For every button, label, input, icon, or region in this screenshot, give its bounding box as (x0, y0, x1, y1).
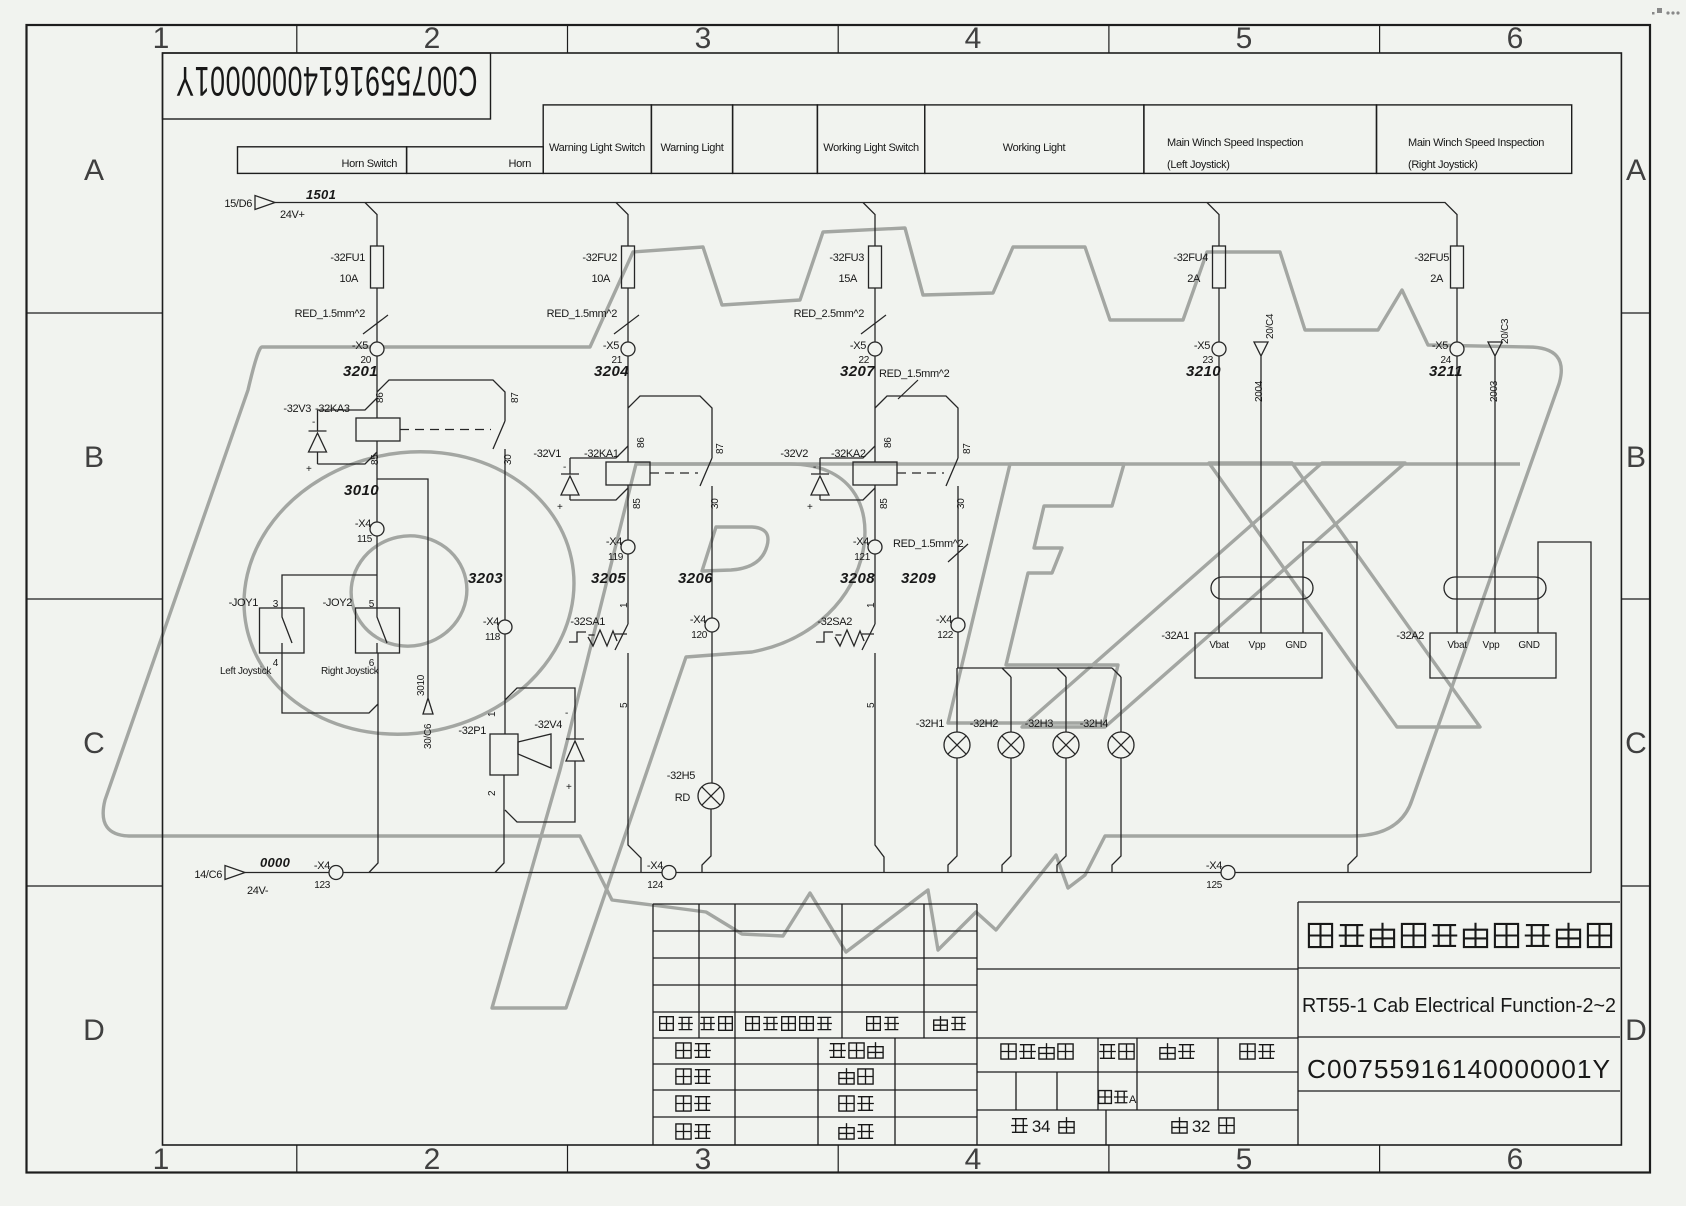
svg-text:RED_2.5mm^2: RED_2.5mm^2 (794, 308, 865, 320)
contact branch to -32KA1 87/30 (628, 396, 712, 618)
svg-text:123: 123 (314, 880, 331, 891)
svg-text:2004: 2004 (1254, 380, 1265, 402)
svg-text:2: 2 (424, 1143, 441, 1176)
svg-text:Vbat: Vbat (1447, 640, 1467, 651)
terminal -X4 pin 123 (329, 866, 343, 880)
svg-text:Vpp: Vpp (1249, 640, 1267, 651)
terminal -X4 pin 121 (868, 540, 882, 554)
svg-text:2A: 2A (1430, 273, 1444, 285)
svg-text:Warning Light Switch: Warning Light Switch (549, 142, 645, 154)
svg-text:-X4: -X4 (936, 614, 952, 626)
svg-text:-X5: -X5 (603, 340, 619, 352)
svg-text:3209: 3209 (901, 570, 936, 587)
title block (653, 902, 1620, 1145)
switch -32SA1 (569, 554, 628, 650)
fuse -32FU5 (1451, 246, 1464, 288)
svg-text:-X4: -X4 (647, 860, 663, 872)
corner marks (1652, 8, 1680, 15)
fuse -32FU4 (1213, 246, 1226, 288)
svg-text:118: 118 (485, 632, 501, 643)
svg-text:2003: 2003 (1489, 380, 1500, 402)
terminal -X4 pin 118 (498, 620, 512, 634)
svg-text:3204: 3204 (594, 363, 629, 380)
svg-text:3: 3 (273, 599, 279, 610)
terminal -X4 pin 119 (621, 540, 635, 554)
svg-text:-X4: -X4 (853, 536, 869, 548)
svg-text:-32FU1: -32FU1 (330, 252, 365, 264)
terminal -X5 pin 24 (1450, 342, 1464, 356)
svg-text:20/C4: 20/C4 (1265, 313, 1276, 339)
svg-text:119: 119 (608, 552, 624, 563)
wire drop from bus at x=1219 (1207, 203, 1219, 247)
svg-text:Horn: Horn (509, 158, 532, 170)
svg-text:10A: 10A (339, 273, 359, 285)
diode -32V3 branch (309, 398, 378, 464)
svg-text:GND: GND (1285, 640, 1306, 651)
svg-text:Left Joystick: Left Joystick (220, 666, 272, 677)
svg-text:Right Joystick: Right Joystick (321, 666, 380, 677)
svg-text:4: 4 (965, 22, 982, 55)
svg-text:-32V2: -32V2 (780, 448, 808, 460)
wire X5.24 to sensor Vbat (1456, 356, 1458, 633)
switch -32SA2 (816, 554, 875, 650)
svg-text:RED_1.5mm^2: RED_1.5mm^2 (547, 308, 618, 320)
svg-text:86: 86 (636, 437, 647, 448)
svg-text:3208: 3208 (840, 570, 875, 587)
svg-text:120: 120 (691, 630, 708, 641)
svg-text:-: - (813, 462, 816, 473)
svg-text:1: 1 (866, 602, 877, 608)
svg-text:4: 4 (965, 1143, 982, 1176)
wire bus 0000 (24V-) (245, 872, 1591, 874)
svg-text:+: + (566, 782, 572, 793)
svg-text:Working Light Switch: Working Light Switch (823, 142, 919, 154)
svg-text:-JOY2: -JOY2 (323, 597, 353, 609)
svg-text:C: C (83, 727, 105, 760)
svg-text:34: 34 (1032, 1117, 1050, 1136)
svg-text:-32SA1: -32SA1 (570, 616, 605, 628)
svg-text:Horn Switch: Horn Switch (342, 158, 398, 170)
svg-text:-32SA2: -32SA2 (817, 616, 852, 628)
net arrow 20/C3 (Vpp 2003) (1488, 342, 1502, 633)
svg-text:-X5: -X5 (1432, 340, 1448, 352)
svg-text:-32H1: -32H1 (916, 718, 944, 730)
svg-text:-X4: -X4 (1206, 860, 1222, 872)
net arrow 20/C4 (Vpp 2004) (1254, 342, 1268, 633)
svg-text:-: - (563, 462, 566, 473)
svg-text:-32V3: -32V3 (283, 403, 311, 415)
svg-text:D: D (83, 1014, 105, 1047)
svg-text:-32FU2: -32FU2 (582, 252, 617, 264)
watermark gear and OPEX letters (103, 228, 1561, 1008)
svg-text:(Right Joystick): (Right Joystick) (1408, 159, 1478, 171)
svg-text:5: 5 (1236, 1143, 1253, 1176)
svg-text:-32P1: -32P1 (458, 725, 486, 737)
svg-text:-X4: -X4 (690, 614, 706, 626)
dashed relay link KA1 (650, 472, 698, 474)
svg-text:-X4: -X4 (606, 536, 622, 548)
svg-text:-: - (565, 708, 568, 719)
svg-text:-32V1: -32V1 (533, 448, 561, 460)
svg-text:87: 87 (510, 392, 521, 403)
svg-text:Vbat: Vbat (1209, 640, 1229, 651)
svg-text:-32FU4: -32FU4 (1173, 252, 1208, 264)
terminal -X4 pin 120 (705, 618, 719, 632)
GND wire A1 (1303, 542, 1357, 873)
svg-text:A: A (1129, 1094, 1137, 1106)
svg-text:-X5: -X5 (1194, 340, 1210, 352)
svg-text:2: 2 (487, 790, 498, 796)
svg-text:+: + (807, 502, 813, 513)
svg-text:-32H2: -32H2 (970, 718, 998, 730)
svg-text:-32KA1: -32KA1 (584, 448, 619, 460)
svg-text:5: 5 (1236, 22, 1253, 55)
wire drop from bus at x=377 (365, 203, 377, 247)
svg-text:A: A (84, 154, 104, 187)
svg-text:1: 1 (487, 711, 498, 717)
svg-text:24V-: 24V- (247, 885, 269, 897)
wire X5.23 to sensor Vbat (1218, 356, 1220, 633)
svg-text:-JOY1: -JOY1 (229, 597, 259, 609)
document number box (rotated) (163, 53, 491, 119)
wire drop from bus at x=628 (616, 203, 628, 247)
svg-text:86: 86 (883, 437, 894, 448)
terminal -X4 pin 125 (1221, 866, 1235, 880)
svg-text:RD: RD (675, 792, 691, 804)
svg-text:Working Light: Working Light (1003, 142, 1066, 154)
svg-text:-X4: -X4 (314, 860, 330, 872)
svg-text:Vpp: Vpp (1483, 640, 1501, 651)
svg-text:30: 30 (710, 498, 721, 509)
terminal -X5 pin 20 (370, 342, 384, 356)
svg-text:125: 125 (1206, 880, 1223, 891)
terminal -X5 pin 21 (621, 342, 635, 356)
svg-text:-32H4: -32H4 (1080, 718, 1108, 730)
lamp distribution bus (957, 632, 1121, 677)
svg-text:87: 87 (962, 443, 973, 454)
svg-text:3207: 3207 (840, 363, 875, 380)
svg-text:C00755916140000001Y: C00755916140000001Y (1307, 1054, 1611, 1084)
svg-text:3205: 3205 (591, 570, 626, 587)
svg-text:1501: 1501 (306, 187, 336, 202)
contact branch to -32KA2 87/30 (875, 396, 958, 618)
lamp -32H3 (1057, 677, 1066, 873)
wire bus 1501 (24V+) (275, 203, 1457, 247)
svg-text:5: 5 (369, 599, 375, 610)
lamp -32H2 (1002, 677, 1011, 873)
svg-text:3010: 3010 (344, 482, 379, 499)
diode -32V2 branch (811, 446, 875, 500)
contact branch to -32KA3 87/30 (377, 380, 505, 620)
svg-text:24V+: 24V+ (280, 209, 305, 221)
node 1501 arrow 15/D6 (255, 196, 275, 210)
svg-text:B: B (84, 441, 104, 474)
svg-text:20/C3: 20/C3 (1500, 318, 1511, 344)
svg-text:3210: 3210 (1186, 363, 1221, 380)
terminal -X4 pin 115 (370, 522, 384, 536)
joystick wiring (282, 536, 378, 873)
title block CJK texts (660, 1017, 674, 1031)
relay coil -32KA3 (356, 418, 400, 441)
svg-text:-32A1: -32A1 (1161, 630, 1189, 642)
svg-text:1: 1 (153, 22, 170, 55)
svg-text:-X4: -X4 (355, 518, 371, 530)
svg-text:C: C (1625, 727, 1647, 760)
svg-text:-32A2: -32A2 (1396, 630, 1424, 642)
svg-text:-X4: -X4 (483, 616, 499, 628)
svg-text:3211: 3211 (1429, 363, 1463, 380)
speed sensor -32A1 (1195, 633, 1322, 678)
svg-text:5: 5 (866, 702, 877, 708)
svg-text:1: 1 (153, 1143, 170, 1176)
svg-text:30: 30 (503, 454, 514, 465)
wire drop from bus at x=875 (863, 203, 875, 247)
relay coil -32KA1 (606, 462, 650, 485)
joystick switch -JOY2 (356, 608, 400, 653)
dashed relay link KA2 (897, 472, 944, 474)
svg-text:115: 115 (357, 534, 373, 545)
svg-text:+: + (306, 464, 312, 475)
svg-text:-32H3: -32H3 (1025, 718, 1053, 730)
svg-text:1: 1 (619, 602, 630, 608)
svg-text:2A: 2A (1187, 273, 1201, 285)
svg-text:121: 121 (854, 552, 871, 563)
svg-text:Main Winch Speed Inspection: Main Winch Speed Inspection (1167, 137, 1303, 149)
svg-text:-32V4: -32V4 (534, 719, 562, 731)
svg-text:122: 122 (937, 630, 954, 641)
cable marker A2 (1444, 577, 1546, 599)
svg-text:124: 124 (647, 880, 664, 891)
svg-text:Warning Light: Warning Light (661, 142, 724, 154)
svg-text:5: 5 (619, 702, 630, 708)
svg-text:32: 32 (1192, 1117, 1210, 1136)
net 3010 reference arrow 30/C6 (377, 479, 433, 714)
horn -32P1 (490, 734, 518, 775)
svg-text:85: 85 (370, 454, 381, 465)
svg-text:4: 4 (273, 658, 279, 669)
svg-text:14/C6: 14/C6 (194, 869, 222, 881)
svg-text:-32H5: -32H5 (667, 770, 695, 782)
lamp -32H5 column (702, 632, 712, 873)
svg-text:RED_1.5mm^2: RED_1.5mm^2 (295, 308, 366, 320)
svg-text:-X5: -X5 (850, 340, 866, 352)
svg-text:87: 87 (715, 443, 726, 454)
svg-text:15/D6: 15/D6 (224, 198, 252, 210)
terminal -X5 pin 23 (1212, 342, 1226, 356)
svg-text:2: 2 (424, 22, 441, 55)
svg-text:15A: 15A (838, 273, 858, 285)
svg-text:10A: 10A (591, 273, 611, 285)
wire coil to X4.115 (376, 441, 378, 522)
svg-text:-X5: -X5 (352, 340, 368, 352)
svg-text:B: B (1626, 441, 1646, 474)
horn column below X4.118 (495, 634, 505, 873)
svg-text:RED_1.5mm^2: RED_1.5mm^2 (879, 368, 950, 380)
svg-text:3203: 3203 (468, 570, 503, 587)
svg-text:+: + (557, 502, 563, 513)
svg-text:RED_1.5mm^2: RED_1.5mm^2 (893, 538, 964, 550)
svg-text:3010: 3010 (416, 674, 427, 696)
GND wire A2 (1538, 542, 1591, 873)
svg-text:C00755916140000001Y: C00755916140000001Y (176, 58, 478, 105)
wire X5.22 down to relay coil KA2 (874, 356, 876, 462)
svg-text:-32FU3: -32FU3 (829, 252, 864, 264)
svg-text:30: 30 (956, 498, 967, 509)
relay coil -32KA2 (853, 462, 897, 485)
cable marker A1 (1211, 577, 1313, 599)
terminal -X4 pin 122 (951, 618, 965, 632)
svg-text:-32FU5: -32FU5 (1414, 252, 1449, 264)
diode -32V1 branch (561, 446, 628, 500)
company name 中联重科股份有限公司 (1309, 924, 1332, 947)
svg-text:0000: 0000 (260, 855, 291, 870)
svg-text:Main Winch Speed Inspection: Main Winch Speed Inspection (1408, 137, 1544, 149)
svg-text:3: 3 (695, 22, 712, 55)
svg-text:-32KA2: -32KA2 (831, 448, 866, 460)
svg-text:6: 6 (1507, 22, 1524, 55)
svg-text:-: - (312, 417, 315, 428)
fuse -32FU2 (622, 246, 635, 288)
svg-text:D: D (1625, 1014, 1647, 1047)
svg-text:6: 6 (1507, 1143, 1524, 1176)
lamp -32H4 (1112, 677, 1121, 873)
fuse -32FU3 (869, 246, 882, 288)
dashed relay link KA3 (400, 429, 491, 431)
wire X5.20 down to relay coil (376, 356, 378, 418)
svg-text:A: A (1626, 154, 1646, 187)
svg-text:85: 85 (632, 498, 643, 509)
svg-text:RT55-1 Cab Electrical Function: RT55-1 Cab Electrical Function-2~2 (1302, 995, 1616, 1017)
svg-text:30/C6: 30/C6 (423, 723, 434, 749)
terminal -X5 pin 22 (868, 342, 882, 356)
svg-text:(Left Joystick): (Left Joystick) (1167, 159, 1230, 171)
svg-text:3201: 3201 (343, 363, 378, 380)
svg-text:-32KA3: -32KA3 (315, 403, 350, 415)
lamp -32H5 (698, 783, 724, 809)
svg-text:3206: 3206 (678, 570, 713, 587)
svg-text:GND: GND (1518, 640, 1539, 651)
svg-text:3: 3 (695, 1143, 712, 1176)
joystick switch -JOY1 (260, 608, 305, 653)
lamp -32H1 (948, 668, 957, 873)
function header boxes (238, 105, 1572, 174)
svg-text:86: 86 (375, 392, 386, 403)
diode -32V4 branch (505, 688, 584, 822)
fuse -32FU1 (371, 246, 384, 288)
speed sensor -32A2 (1430, 633, 1556, 678)
wire X5.21 down to relay coil KA1 (627, 356, 629, 462)
svg-text:85: 85 (879, 498, 890, 509)
terminal -X4 pin 124 (662, 866, 676, 880)
